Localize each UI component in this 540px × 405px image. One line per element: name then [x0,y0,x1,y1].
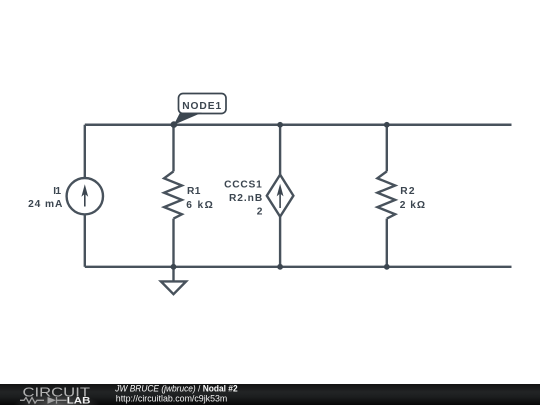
svg-text:2: 2 [257,206,263,217]
svg-text:CCCS1: CCCS1 [224,180,262,191]
svg-text:R2: R2 [400,186,415,197]
svg-text:LAB: LAB [67,395,91,405]
svg-text:http://circuitlab.com/c9jk53m: http://circuitlab.com/c9jk53m [116,394,228,404]
svg-text:6 kΩ: 6 kΩ [186,200,213,211]
svg-text:I1: I1 [53,186,61,197]
svg-text:R1: R1 [187,186,201,197]
svg-text:2 kΩ: 2 kΩ [400,200,425,211]
svg-text:NODE1: NODE1 [182,101,221,112]
svg-text:24 mA: 24 mA [28,199,63,210]
svg-text:JW BRUCE (jwbruce) / Nodal #2: JW BRUCE (jwbruce) / Nodal #2 [114,384,237,394]
svg-text:R2.nB: R2.nB [229,193,262,204]
